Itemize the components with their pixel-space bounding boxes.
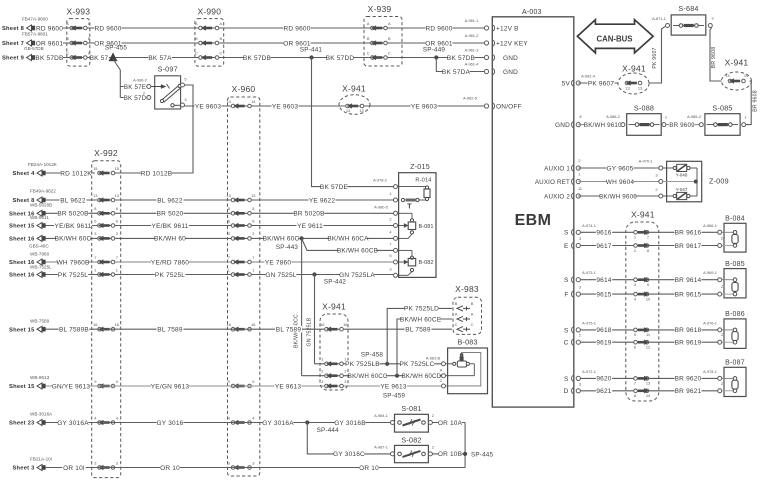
A-003 pin 2 +12V KEY: [484, 41, 488, 45]
svg-text:YE/BK 9611: YE/BK 9611: [152, 223, 189, 230]
X-960 pin pair 8 row y=213.3: [231, 212, 235, 216]
svg-text:GY 9605: GY 9605: [607, 165, 634, 172]
svg-text:BK 57DB: BK 57DB: [35, 55, 63, 62]
X-941 pin pair row 9620: [634, 377, 638, 381]
svg-text:BL 7589: BL 7589: [276, 327, 302, 334]
svg-text:A-970-1: A-970-1: [639, 159, 653, 164]
svg-text:CAN-BUS: CAN-BUS: [597, 35, 633, 44]
wire GN 7525LB vertical: [314, 275, 316, 364]
svg-text:GND: GND: [555, 122, 570, 129]
wire label YE 9611: [296, 222, 323, 229]
S-088 pin right: [662, 123, 666, 127]
X-992 pin pair 13 row y=200: [98, 198, 102, 202]
resistor S-684: [671, 15, 706, 35]
svg-text:3: 3: [579, 285, 581, 290]
svg-text:A-985-2: A-985-2: [687, 114, 701, 119]
X-992 pin pair 3 row y=238.4: [98, 237, 102, 241]
svg-text:X-941: X-941: [342, 84, 366, 94]
wire PK 7525LB row: [315, 363, 442, 365]
X-941 pin pair 2 (BK/WH 60CC): [325, 374, 329, 378]
svg-text:Z-009: Z-009: [709, 176, 729, 185]
svg-text:+12V B: +12V B: [496, 26, 519, 33]
wire label YE/GN 9613: [151, 383, 189, 390]
wire label GY 3016A b: [263, 419, 294, 426]
X-990 pin pair B row2: [199, 41, 203, 45]
svg-text:GN/YE 9613: GN/YE 9613: [52, 383, 91, 390]
svg-text:3: 3: [389, 266, 391, 271]
svg-text:9: 9: [252, 379, 254, 384]
svg-text:3: 3: [228, 231, 230, 236]
connector X-993: [67, 19, 90, 67]
svg-text:Sheet 9: Sheet 9: [2, 56, 25, 62]
B-083 pin A (BK/WH 60CD): [442, 374, 446, 378]
X-941 pin pair 3 (YE 9613): [325, 384, 329, 388]
svg-text:RD 9600: RD 9600: [283, 25, 310, 32]
svg-text:FB24A-1012K: FB24A-1012K: [28, 162, 58, 167]
wire label 9614: [596, 276, 612, 283]
svg-text:A: A: [66, 21, 69, 26]
svg-text:AUXIO 1: AUXIO 1: [544, 166, 570, 173]
wire label GY 3016A a: [58, 419, 89, 426]
S-085 pin right: [742, 123, 746, 127]
svg-text:7: 7: [228, 255, 230, 260]
svg-text:A-978-2: A-978-2: [373, 178, 387, 183]
wire label YE 9603 mid: [271, 103, 298, 110]
svg-text:3: 3: [228, 460, 230, 465]
svg-text:B-087: B-087: [725, 360, 745, 367]
svg-text:S-085: S-085: [712, 104, 732, 113]
svg-text:Sheet 3: Sheet 3: [12, 466, 35, 472]
component B-086: [724, 319, 746, 349]
svg-text:A-972-1: A-972-1: [582, 369, 596, 374]
svg-text:3: 3: [579, 381, 581, 386]
svg-text:A-962-5: A-962-5: [463, 96, 477, 101]
svg-text:Sheet 15: Sheet 15: [9, 224, 35, 230]
svg-text:Z-015: Z-015: [410, 162, 430, 171]
X-941 pin pair row 9616: [634, 231, 638, 235]
wire label OR 10I: [62, 464, 85, 471]
X-992 pin pair 3 row y=467.5: [98, 466, 102, 470]
svg-text:1: 1: [389, 191, 391, 196]
svg-text:WH 9604: WH 9604: [606, 179, 635, 186]
svg-text:13: 13: [251, 193, 255, 198]
svg-text:A-975-1: A-975-1: [582, 320, 596, 325]
svg-text:5: 5: [634, 332, 636, 337]
wire label OR 10 a: [160, 464, 180, 471]
A-003 pin 4 GND: [484, 69, 488, 73]
X-941 pin pair row 9614: [634, 278, 638, 282]
svg-text:BR 9609: BR 9609: [669, 122, 695, 129]
svg-text:SP-441: SP-441: [300, 47, 323, 54]
splice SP-442: [312, 272, 316, 276]
wire RD 9600 (row 1): [36, 27, 487, 29]
X-992 pin pair 6 row y=225.5: [98, 224, 102, 228]
svg-text:FB57A-9601: FB57A-9601: [22, 32, 48, 37]
svg-text:6: 6: [94, 218, 96, 223]
svg-text:BR 9620: BR 9620: [675, 376, 702, 383]
svg-text:9615: 9615: [596, 291, 611, 298]
resistor Y-048: [663, 167, 673, 169]
wire BL 9622 (row y=200.0): [45, 199, 394, 201]
svg-text:3: 3: [579, 236, 581, 241]
splice SP-455: [109, 53, 117, 61]
svg-text:1: 1: [578, 172, 580, 177]
A-003 pin 3 GND: [484, 55, 488, 59]
svg-text:3: 3: [344, 379, 346, 384]
A-003 pin 5 ON/OFF: [484, 104, 488, 108]
wire label BK/WH 60CC: [350, 372, 386, 379]
wire BK 57DB (row 3): [36, 57, 487, 59]
svg-text:C: C: [564, 340, 569, 347]
X-941 pin pair row 9618: [634, 328, 638, 332]
svg-text:S-081: S-081: [401, 404, 421, 413]
connector X-990: [195, 19, 224, 67]
wire label BL 7589 c: [404, 326, 431, 333]
wire label YE/BK 9611: [54, 222, 92, 229]
S-082 pin right: [428, 452, 432, 456]
svg-text:GN 7525LB: GN 7525LB: [307, 317, 313, 346]
wire OR 10A: [432, 422, 465, 424]
svg-text:B-081: B-081: [419, 224, 434, 230]
svg-text:A: A: [367, 21, 370, 26]
X-960 pin pair 14: [231, 104, 235, 108]
X-941 5V pin pair: [625, 81, 629, 85]
wire YE 9603 (row ON/OFF): [184, 105, 487, 107]
svg-text:Sheet 15: Sheet 15: [9, 384, 35, 390]
svg-text:F: F: [564, 292, 568, 299]
wire label BK/WH 9606: [600, 193, 636, 200]
wire label BK 57: [89, 54, 109, 61]
svg-text:8: 8: [228, 206, 230, 211]
svg-text:2: 2: [432, 413, 434, 418]
X-941 pin pair row 9615: [634, 292, 638, 296]
wire label BR 5020B: [294, 210, 325, 217]
svg-text:7: 7: [94, 255, 96, 260]
wire BK/WH 60CC row: [302, 375, 442, 377]
svg-text:BL 7589: BL 7589: [157, 327, 183, 334]
sensor B-082: [399, 249, 412, 251]
svg-text:BR 9616: BR 9616: [675, 230, 702, 237]
wire label BR 9616: [674, 229, 701, 236]
svg-text:BK/WH 60C: BK/WH 60C: [55, 236, 92, 243]
X-960 pin pair 3 row y=238.4: [231, 237, 235, 241]
svg-text:BR 5020: BR 5020: [157, 211, 184, 218]
svg-text:GN 7525LA: GN 7525LA: [339, 272, 375, 279]
svg-text:R-014: R-014: [415, 178, 431, 184]
svg-text:7: 7: [634, 381, 636, 386]
svg-text:A-973-1: A-973-1: [582, 270, 596, 275]
S-097 pin 1: [147, 85, 151, 89]
svg-text:B-082: B-082: [419, 260, 434, 266]
wire label 9618: [596, 327, 612, 334]
svg-text:SP-459: SP-459: [383, 393, 406, 400]
svg-text:GBS-40C: GBS-40C: [29, 244, 49, 249]
A-003 pin 1 +12V B: [484, 26, 488, 30]
Z-015 pin 2: [394, 224, 398, 228]
wire label 9615: [596, 291, 612, 298]
svg-text:OR 10: OR 10: [160, 465, 180, 472]
svg-text:BR 5020B: BR 5020B: [57, 211, 88, 218]
inline connector X-941 (BR 9608): [722, 72, 752, 90]
svg-text:WB-7589: WB-7589: [30, 319, 50, 324]
wire label BL 9622: [59, 197, 86, 204]
wire label YE/RD 7860: [151, 259, 189, 266]
svg-text:B: B: [471, 301, 474, 306]
wire label RD 9600 c: [283, 25, 310, 32]
wire label OR 9601 c: [283, 40, 310, 47]
A-003 pin S y=329.9: [576, 328, 580, 332]
svg-text:8: 8: [634, 393, 636, 398]
A-003 pin D y=390.8: [576, 389, 580, 393]
wire BR 9609: [666, 124, 699, 126]
svg-text:16: 16: [115, 322, 119, 327]
wire label BK/WH 9610: [585, 121, 621, 128]
CAN-BUS double arrow symbol: [577, 20, 653, 53]
svg-text:2: 2: [143, 91, 145, 96]
X-993 pin pair B row2: [70, 41, 74, 45]
svg-text:PK 7525LC: PK 7525LC: [399, 361, 434, 368]
svg-text:C: C: [219, 50, 222, 55]
wire BR 9618 (row y=329.9): [578, 329, 719, 331]
wire BK 57E / BK 57D drop to S-097: [113, 59, 120, 98]
wire label BK 57DE: [320, 183, 347, 190]
wire label 9621: [596, 388, 612, 395]
svg-text:5: 5: [184, 77, 186, 82]
X-992 pin pair 16 row y=329.2: [98, 327, 102, 331]
svg-text:SP-444: SP-444: [317, 427, 340, 434]
wire label BK/WH 60CE: [402, 316, 440, 323]
svg-text:C: C: [455, 322, 458, 327]
svg-text:FB49A-9622: FB49A-9622: [30, 189, 56, 194]
svg-text:WB-7525L: WB-7525L: [30, 264, 52, 269]
A-003 pin C y=342.2: [576, 340, 580, 344]
wire label PK 7525L: [58, 271, 89, 278]
svg-text:11: 11: [646, 332, 650, 337]
resistor R-014: [399, 186, 427, 188]
svg-text:BK/WH 60CD: BK/WH 60CD: [402, 373, 442, 380]
svg-text:9614: 9614: [596, 277, 611, 284]
wire BK/WH 9610: [578, 124, 621, 126]
svg-text:Sheet 16: Sheet 16: [9, 273, 35, 279]
splice SP-459 junction: [395, 374, 399, 378]
svg-text:D: D: [564, 388, 569, 395]
svg-text:8: 8: [116, 206, 118, 211]
wire label 9619: [596, 339, 612, 346]
Z-015 pin 1: [394, 198, 398, 202]
wire label BR 9618: [674, 327, 701, 334]
svg-text:5V: 5V: [562, 81, 571, 88]
svg-text:BL 9622: BL 9622: [157, 197, 183, 204]
splice SP-444: [305, 420, 309, 424]
svg-text:6: 6: [252, 218, 254, 223]
svg-text:5: 5: [389, 253, 391, 258]
svg-text:SP-458: SP-458: [361, 352, 384, 359]
wire label BR 5020: [156, 210, 183, 217]
svg-text:13: 13: [359, 108, 363, 113]
X-941 ON/OFF pin pair: [346, 104, 350, 108]
svg-text:2: 2: [721, 332, 723, 337]
ECU connector A-003 box: [492, 17, 574, 407]
svg-text:B: B: [88, 36, 91, 41]
svg-text:PK 9607: PK 9607: [652, 47, 658, 68]
svg-text:1: 1: [634, 235, 636, 240]
svg-text:BR 9615: BR 9615: [675, 291, 702, 298]
inline connector X-941 (ON/OFF wire): [339, 95, 370, 115]
Z-015 pin 7: [394, 248, 398, 252]
wire label GN 7525L: [266, 271, 297, 278]
svg-text:RD 9600: RD 9600: [94, 25, 121, 32]
wire BK 57DA (row 4): [436, 58, 487, 72]
X-960 pin pair 9 row y=386: [231, 384, 235, 388]
svg-text:2: 2: [721, 236, 723, 241]
svg-text:A-871-1: A-871-1: [652, 16, 666, 21]
wire YE/BK 9611 (row y=225.5): [45, 225, 394, 227]
svg-text:BK/WH 60: BK/WH 60: [154, 236, 186, 243]
A-003 pin 5V: [576, 81, 580, 85]
svg-text:1: 1: [744, 115, 746, 120]
svg-text:Sheet 4: Sheet 4: [12, 171, 35, 177]
wire label BR 9609: [669, 121, 695, 128]
svg-text:3: 3: [116, 231, 118, 236]
connector X-983: [453, 297, 482, 334]
B-087 pin 2: [718, 389, 722, 393]
wire label RD 9600 d: [425, 25, 452, 32]
svg-text:X-990: X-990: [197, 7, 221, 17]
connector X-960: [228, 97, 260, 476]
svg-text:A-974-1: A-974-1: [582, 223, 596, 228]
svg-text:YE 9613: YE 9613: [275, 383, 302, 390]
wire WH 7960B (row y=262.0): [45, 261, 394, 263]
splice SP-458: [385, 362, 389, 366]
wire label RD 9600 b: [94, 25, 121, 32]
svg-text:SP-449: SP-449: [423, 47, 446, 54]
svg-text:13: 13: [93, 193, 97, 198]
svg-text:8: 8: [94, 206, 96, 211]
A-003 pin S y=378.4: [576, 376, 580, 380]
X-960 pin pair 6 row y=225.5: [231, 224, 235, 228]
svg-text:BK/WH 9606: BK/WH 9606: [599, 193, 637, 200]
wire BL 7589 (row): [45, 328, 452, 330]
svg-text:OR 10B: OR 10B: [438, 451, 462, 458]
svg-text:A-986-2: A-986-2: [606, 114, 620, 119]
wire OR 9601 (row 2): [36, 42, 487, 44]
Z-015 pin BK 57DE: [394, 185, 398, 189]
A-003 pin AUXIO 1: [576, 166, 580, 170]
svg-text:A-980-5: A-980-5: [374, 204, 388, 209]
svg-text:8: 8: [579, 114, 581, 119]
svg-text:A-003: A-003: [522, 9, 542, 16]
svg-text:BR 9608: BR 9608: [711, 47, 717, 69]
wire WH 9604: [578, 181, 659, 183]
X-960 pin pair 3 row y=467.5: [231, 466, 235, 470]
Z-009 internal junction: [694, 180, 698, 184]
svg-text:9: 9: [116, 379, 118, 384]
connector X-992: [92, 161, 121, 478]
Z-015 pin 3: [394, 273, 398, 277]
wire label BK 57E: [124, 83, 146, 90]
wire label OR 9601 d: [425, 40, 452, 47]
svg-text:3: 3: [252, 231, 254, 236]
component B-085: [724, 269, 746, 298]
wire label BR 5020B: [58, 210, 89, 217]
svg-text:2: 2: [655, 187, 657, 192]
wire label RD 1012B: [141, 170, 172, 177]
wire BR 9619 (row y=342.2): [578, 341, 719, 343]
wire label BK 57DD: [326, 54, 353, 61]
svg-text:9: 9: [647, 282, 649, 287]
svg-text:1: 1: [665, 115, 667, 120]
svg-text:A: A: [388, 21, 391, 26]
svg-text:7: 7: [389, 241, 391, 246]
A-003 pin S y=232.3: [576, 230, 580, 234]
wire label PK 7525LD: [404, 305, 438, 312]
svg-text:C: C: [367, 50, 370, 55]
svg-text:C: C: [195, 50, 198, 55]
A-003 pin AUXIO RET: [576, 179, 580, 183]
svg-text:BK/WH 60CE: BK/WH 60CE: [400, 316, 442, 323]
switch S-081: [395, 414, 429, 432]
svg-text:WB-9613: WB-9613: [30, 375, 50, 380]
svg-text:YE 9622: YE 9622: [309, 197, 336, 204]
Z-015 pin 4: [394, 236, 398, 240]
X-960 pin pair 4 row y=422.5: [231, 421, 235, 425]
svg-text:2: 2: [578, 158, 580, 163]
svg-text:WH 7960B: WH 7960B: [56, 259, 89, 266]
svg-text:PK 7525LD: PK 7525LD: [404, 306, 439, 313]
svg-text:BK 57DE: BK 57DE: [320, 184, 349, 191]
wire label GY 3016B: [335, 419, 366, 426]
A-003 pin F y=294.1: [576, 292, 580, 296]
svg-text:GND: GND: [503, 55, 518, 62]
svg-text:16: 16: [343, 322, 347, 327]
wire BR 9615 (row y=294.1): [578, 293, 719, 295]
svg-text:Y-047: Y-047: [676, 187, 688, 192]
svg-text:9617: 9617: [596, 243, 611, 250]
B-087 pin 1: [718, 376, 722, 380]
svg-text:WB-5020B: WB-5020B: [30, 202, 52, 207]
svg-text:YE/BK 9611: YE/BK 9611: [55, 223, 92, 230]
svg-text:16: 16: [227, 322, 231, 327]
Z-015 fuse element T: [401, 198, 404, 201]
B-085 pin 2: [718, 292, 722, 296]
wire label BK/WH 60CB: [339, 247, 377, 254]
svg-text:BK/WH 60CA: BK/WH 60CA: [327, 236, 369, 243]
wire label BL 7589 b: [275, 326, 302, 333]
svg-text:Sheet 23: Sheet 23: [9, 421, 35, 427]
wire label PK 7525LB: [345, 361, 379, 368]
X-992 pin pair 7 row y=262: [98, 260, 102, 264]
X-941 BR 9608 pin pair: [728, 79, 732, 83]
wire RD 1012B riser to S-097 pin 5: [113, 85, 193, 173]
wire label BK/WH 60CA: [329, 235, 367, 242]
wire label YE/BK 9611: [151, 222, 189, 229]
wire BK/WH 60CC vertical: [301, 238, 303, 375]
wire label BK/WH 60: [155, 235, 186, 242]
svg-text:S-684: S-684: [678, 4, 698, 13]
svg-text:6: 6: [634, 345, 636, 350]
svg-text:1: 1: [252, 267, 254, 272]
X-941 pin pair 1 (PK 7525LB): [325, 362, 329, 366]
svg-text:S: S: [564, 327, 569, 334]
fuse S-085: [705, 114, 740, 136]
wire label BK 57DB mid: [243, 54, 270, 61]
svg-text:S-088: S-088: [634, 104, 654, 113]
wire label BK/WH 60C: [264, 235, 298, 242]
wire OR 10A vertical to SP-445: [464, 423, 466, 468]
svg-text:OR 10A: OR 10A: [438, 420, 463, 427]
svg-text:7: 7: [252, 255, 254, 260]
X-992 pin pair 4 row y=422.5: [98, 421, 102, 425]
